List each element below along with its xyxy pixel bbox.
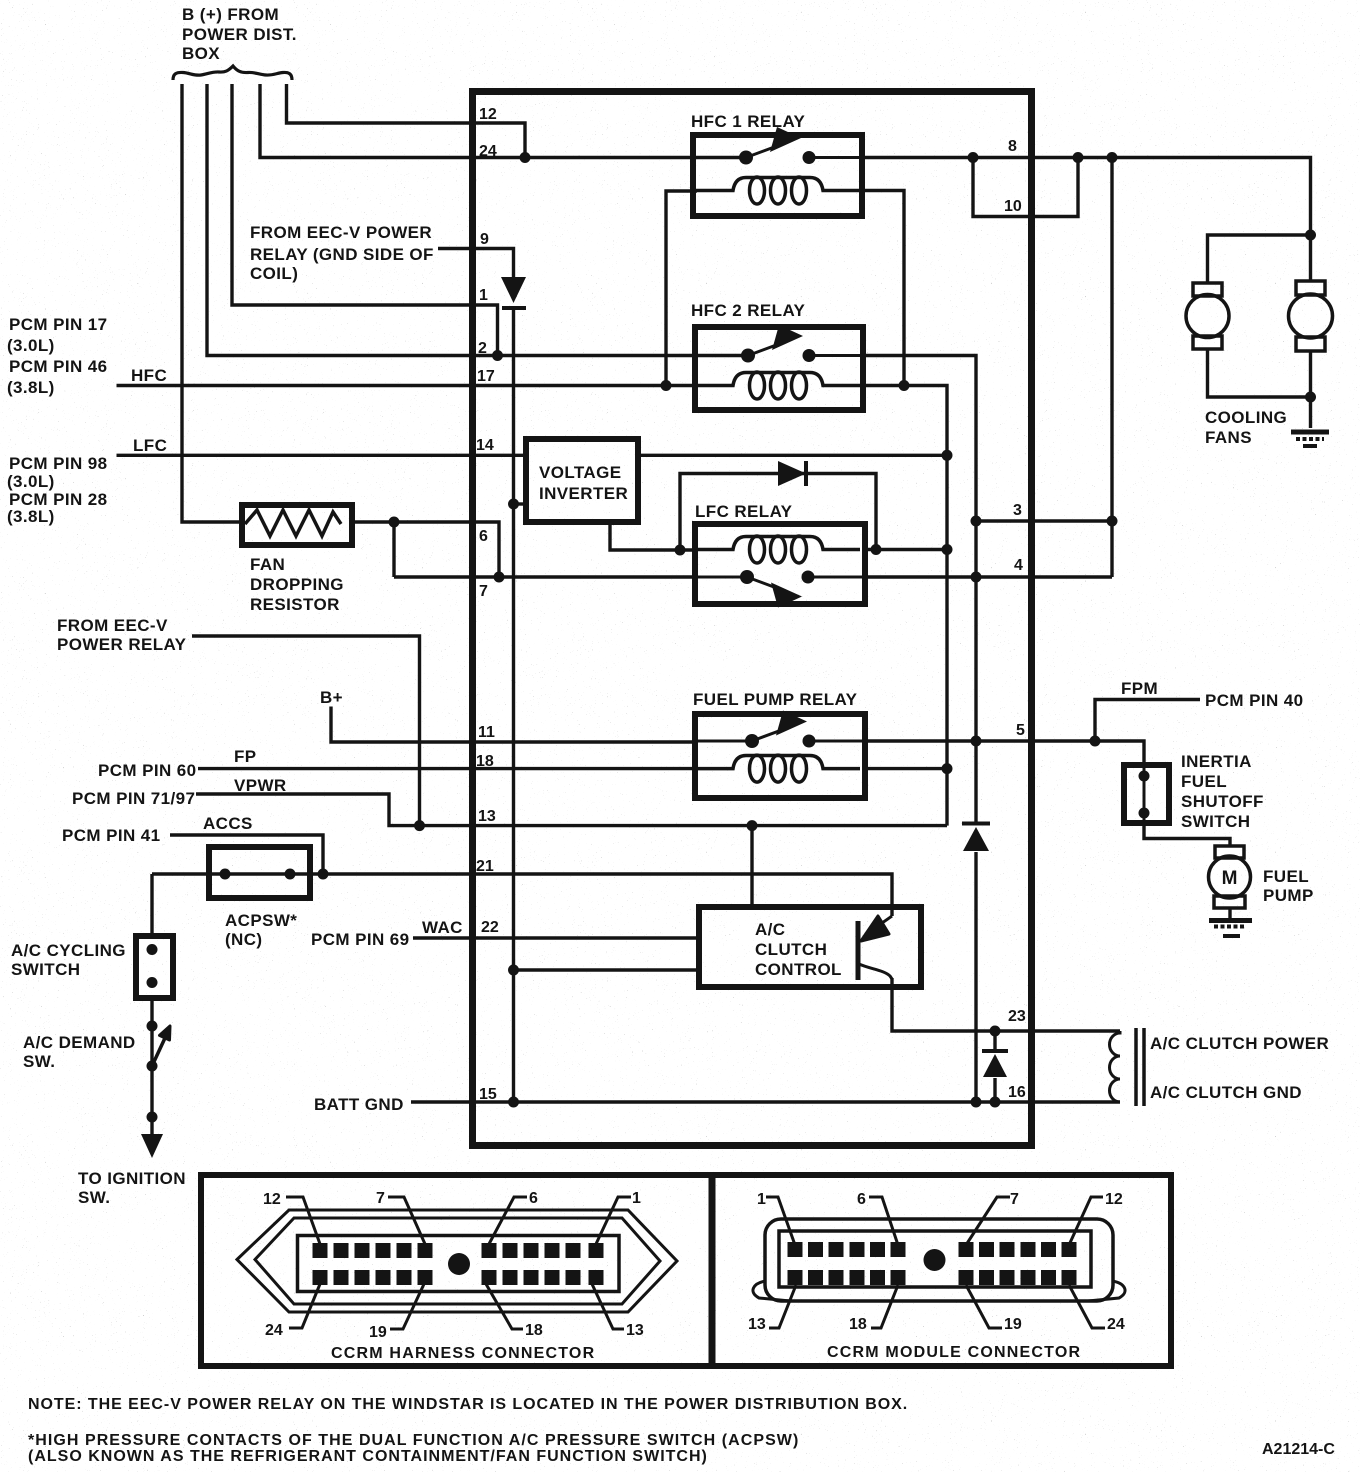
svg-text:SW.: SW. [23,1052,55,1071]
svg-text:A/C CLUTCH POWER: A/C CLUTCH POWER [1150,1034,1329,1053]
svg-text:A/C CYCLING: A/C CYCLING [11,941,126,960]
svg-text:PCM PIN 60: PCM PIN 60 [98,761,196,780]
svg-text:18: 18 [525,1322,543,1339]
svg-text:PCM PIN 71/97: PCM PIN 71/97 [72,789,195,808]
svg-text:POWER RELAY: POWER RELAY [57,635,187,654]
svg-text:FP: FP [234,747,257,766]
svg-text:WAC: WAC [422,918,463,937]
svg-text:NOTE: THE EEC-V POWER RELAY ON: NOTE: THE EEC-V POWER RELAY ON THE WINDS… [28,1396,908,1413]
svg-text:8: 8 [1008,138,1017,155]
svg-text:CONTROL: CONTROL [755,960,842,979]
svg-text:18: 18 [849,1316,867,1333]
svg-text:24: 24 [1107,1316,1125,1333]
svg-text:PCM PIN 46: PCM PIN 46 [9,357,107,376]
svg-text:SHUTOFF: SHUTOFF [1181,792,1264,811]
svg-text:VPWR: VPWR [234,776,287,795]
svg-text:ACPSW*: ACPSW* [225,911,297,930]
svg-text:21: 21 [476,858,494,875]
svg-text:19: 19 [1004,1316,1022,1333]
svg-text:PUMP: PUMP [1263,886,1314,905]
svg-text:A/C CLUTCH GND: A/C CLUTCH GND [1150,1083,1302,1102]
svg-text:FAN: FAN [250,555,285,574]
svg-text:A/C DEMAND: A/C DEMAND [23,1033,136,1052]
svg-text:FUEL PUMP RELAY: FUEL PUMP RELAY [693,690,858,709]
svg-text:24: 24 [479,143,497,160]
svg-text:7: 7 [376,1190,385,1207]
svg-text:(3.0L): (3.0L) [7,472,55,491]
svg-text:FROM EEC-V POWER: FROM EEC-V POWER [250,223,432,242]
svg-text:16: 16 [1008,1084,1026,1101]
svg-text:B (+) FROM: B (+) FROM [182,5,279,24]
svg-text:CCRM MODULE CONNECTOR: CCRM MODULE CONNECTOR [827,1344,1081,1361]
svg-text:SWITCH: SWITCH [11,960,80,979]
svg-text:INERTIA: INERTIA [1181,752,1252,771]
svg-text:PCM PIN 98: PCM PIN 98 [9,454,107,473]
svg-text:(NC): (NC) [225,930,262,949]
svg-text:1: 1 [757,1191,766,1208]
svg-text:22: 22 [481,919,499,936]
svg-text:6: 6 [479,528,488,545]
svg-text:1: 1 [632,1190,641,1207]
svg-text:6: 6 [529,1190,538,1207]
svg-text:7: 7 [1010,1191,1019,1208]
svg-text:DROPPING: DROPPING [250,575,344,594]
svg-text:11: 11 [478,724,495,741]
svg-text:HFC 2 RELAY: HFC 2 RELAY [691,301,806,320]
svg-text:ACCS: ACCS [203,814,253,833]
svg-text:(3.0L): (3.0L) [7,336,55,355]
svg-text:18: 18 [476,753,494,770]
svg-text:13: 13 [748,1316,766,1333]
svg-text:VOLTAGE: VOLTAGE [539,463,621,482]
svg-text:13: 13 [626,1322,644,1339]
svg-text:5: 5 [1016,722,1025,739]
svg-text:LFC: LFC [133,436,167,455]
svg-text:17: 17 [477,368,495,385]
svg-text:BOX: BOX [182,44,220,63]
svg-text:SWITCH: SWITCH [1181,812,1250,831]
svg-text:PCM PIN 40: PCM PIN 40 [1205,691,1303,710]
svg-text:FROM EEC-V: FROM EEC-V [57,616,168,635]
svg-text:4: 4 [1014,557,1023,574]
svg-text:M: M [1222,868,1238,889]
svg-text:COOLING: COOLING [1205,408,1287,427]
svg-text:10: 10 [1004,198,1022,215]
svg-text:FANS: FANS [1205,428,1252,447]
svg-text:CCRM HARNESS CONNECTOR: CCRM HARNESS CONNECTOR [331,1345,595,1362]
svg-text:INVERTER: INVERTER [539,484,628,503]
svg-text:23: 23 [1008,1008,1026,1025]
svg-text:1: 1 [479,287,488,304]
svg-text:24: 24 [265,1322,283,1339]
svg-text:HFC: HFC [131,366,167,385]
svg-text:CLUTCH: CLUTCH [755,940,827,959]
svg-text:6: 6 [857,1191,866,1208]
svg-text:PCM PIN 41: PCM PIN 41 [62,826,160,845]
svg-text:POWER DIST.: POWER DIST. [182,25,297,44]
svg-text:15: 15 [479,1086,497,1103]
svg-text:(3.8L): (3.8L) [7,507,55,526]
svg-text:PCM PIN 69: PCM PIN 69 [311,930,409,949]
svg-text:SW.: SW. [78,1188,110,1207]
svg-text:TO IGNITION: TO IGNITION [78,1169,186,1188]
svg-text:(ALSO KNOWN AS THE REFRIGERANT: (ALSO KNOWN AS THE REFRIGERANT CONTAINME… [28,1448,708,1465]
svg-text:14: 14 [476,437,494,454]
svg-text:19: 19 [369,1324,387,1341]
svg-text:13: 13 [478,808,496,825]
svg-text:9: 9 [480,231,489,248]
svg-text:FUEL: FUEL [1181,772,1227,791]
svg-text:PCM PIN 17: PCM PIN 17 [9,315,107,334]
svg-text:B+: B+ [320,688,343,707]
svg-text:BATT GND: BATT GND [314,1095,404,1114]
svg-text:A/C: A/C [755,920,785,939]
svg-text:12: 12 [479,106,497,123]
svg-text:*HIGH PRESSURE CONTACTS OF THE: *HIGH PRESSURE CONTACTS OF THE DUAL FUNC… [28,1432,799,1449]
svg-text:7: 7 [479,583,488,600]
svg-text:FPM: FPM [1121,679,1158,698]
svg-text:2: 2 [478,340,487,357]
svg-text:(3.8L): (3.8L) [7,378,55,397]
svg-text:A21214-C: A21214-C [1262,1441,1335,1458]
svg-text:COIL): COIL) [250,264,298,283]
svg-text:FUEL: FUEL [1263,867,1309,886]
svg-text:12: 12 [263,1191,281,1208]
svg-text:LFC RELAY: LFC RELAY [695,502,793,521]
svg-text:HFC 1 RELAY: HFC 1 RELAY [691,112,806,131]
svg-text:RELAY (GND SIDE OF: RELAY (GND SIDE OF [250,245,434,264]
svg-text:RESISTOR: RESISTOR [250,595,340,614]
svg-text:3: 3 [1013,502,1022,519]
svg-text:12: 12 [1105,1191,1123,1208]
